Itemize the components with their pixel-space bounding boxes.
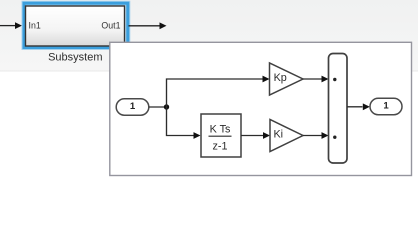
svg-text:K Ts: K Ts (210, 123, 231, 135)
wire out of subsystem (129, 25, 161, 27)
svg-text:z-1: z-1 (213, 141, 228, 153)
subsystem block selection highlight halo (24, 3, 128, 47)
outport 1 (370, 98, 402, 114)
wire branch down to integrator (167, 107, 194, 136)
svg-text:Kp: Kp (274, 72, 287, 84)
subsystem block Subsystem (26, 6, 125, 46)
wire sum to outport (347, 106, 363, 108)
gain Kp (270, 63, 304, 95)
subsystem contents panel (110, 42, 412, 175)
svg-text:In1: In1 (29, 21, 41, 31)
svg-text:1: 1 (383, 100, 389, 111)
svg-text:Ki: Ki (273, 128, 283, 140)
wire into subsystem (0, 25, 16, 27)
discrete integrator K Ts/(z-1) (201, 114, 241, 157)
svg-text:Subsystem: Subsystem (48, 52, 102, 64)
inport 1 (116, 99, 149, 115)
subsystem block selection highlight (24, 3, 128, 47)
svg-text:1: 1 (130, 101, 136, 112)
wire integrator to Ki (241, 135, 263, 137)
background top band (0, 0, 418, 71)
junction dot (164, 104, 169, 109)
wire Kp to sum (303, 78, 322, 80)
gain Ki (270, 120, 303, 152)
plus sign lower (333, 136, 336, 139)
sum block (329, 54, 348, 164)
svg-text:Out1: Out1 (101, 21, 120, 31)
plus sign upper (333, 78, 336, 81)
wire Ki to sum (303, 135, 322, 137)
wire inport to junction (149, 106, 167, 108)
wire branch up to Kp (167, 79, 263, 107)
